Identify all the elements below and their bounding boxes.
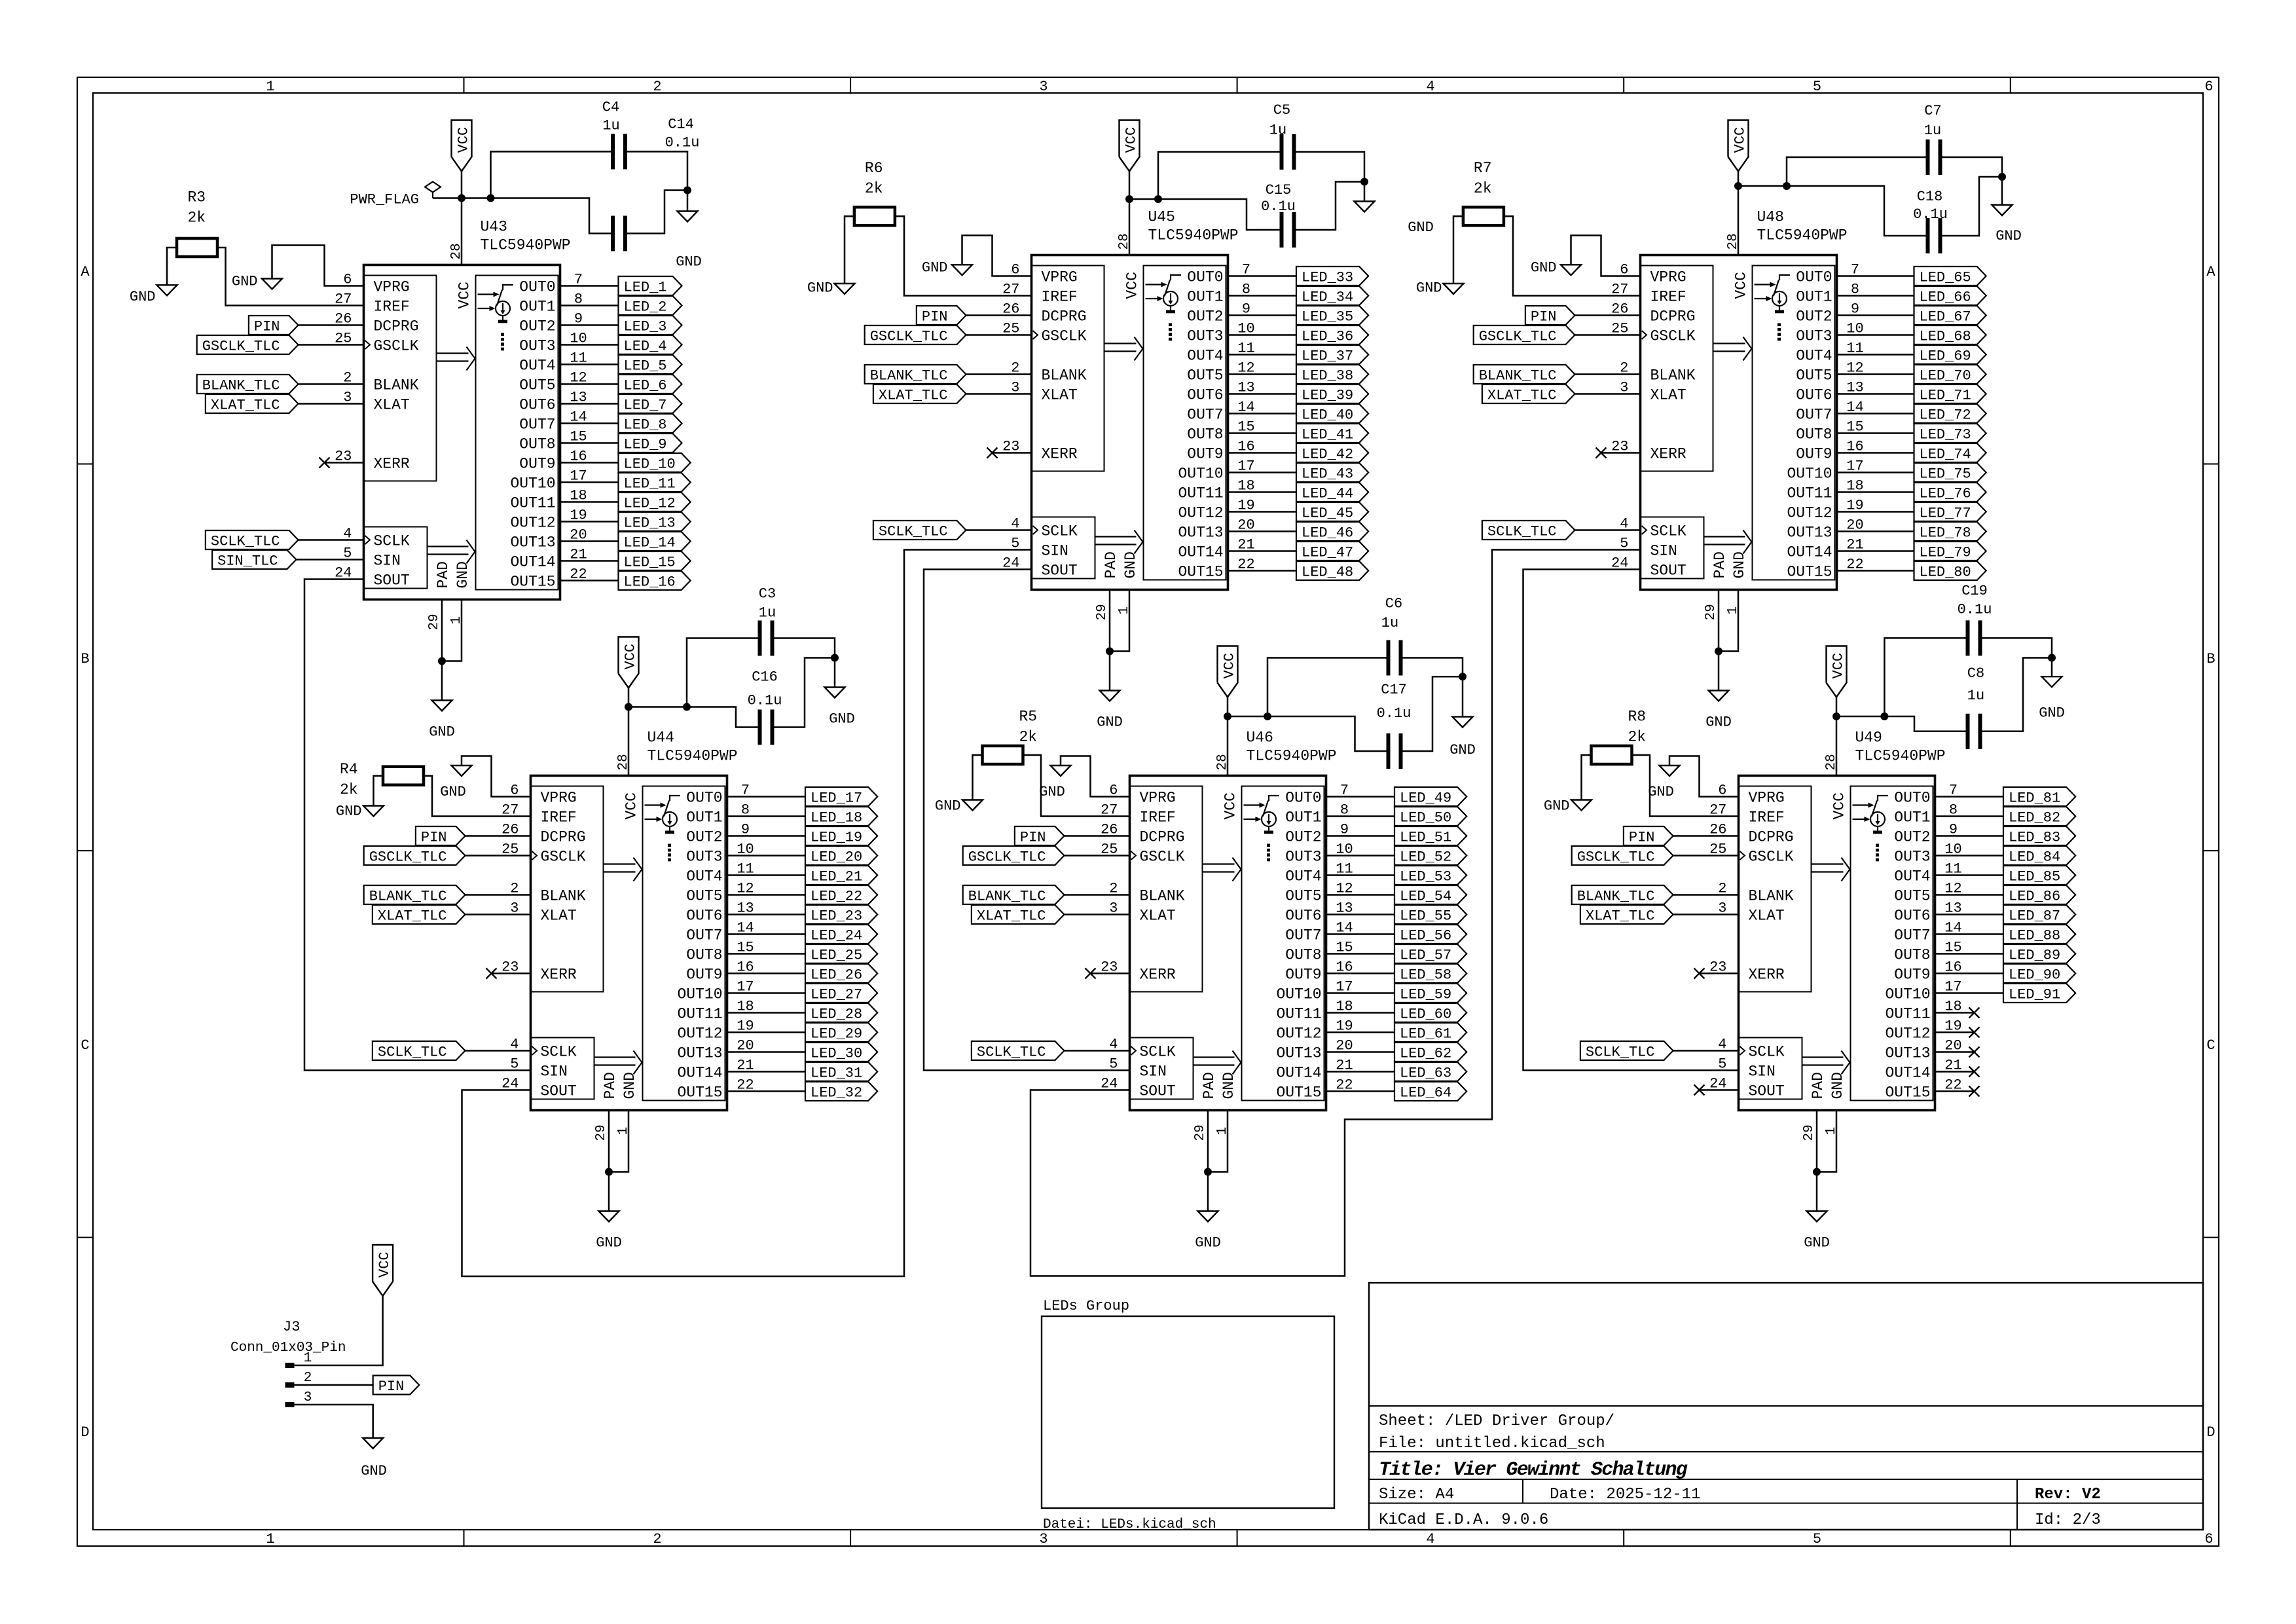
IC U48 inner box serial pins: [1641, 517, 1704, 579]
global label XLAT_TLC at U46.XLAT: [972, 905, 1065, 924]
svg-text:C15: C15: [1266, 182, 1292, 198]
connector J3 pin 3 stub: [285, 1402, 295, 1407]
svg-text:D: D: [81, 1424, 89, 1441]
wire SCLK_TLC to U46.SCLK: [1065, 1050, 1130, 1052]
svg-text:GND: GND: [922, 259, 948, 276]
wire U45.VPRG to GND: [962, 236, 1032, 276]
svg-text:C16: C16: [752, 669, 778, 686]
wire C8 to GND junction U49: [1982, 658, 2052, 731]
svg-text:VCC: VCC: [1831, 653, 1847, 679]
svg-text:GND: GND: [621, 1072, 638, 1099]
svg-text:DCPRG: DCPRG: [1749, 829, 1794, 846]
global label GSCLK_TLC at U45.GSCLK: [865, 325, 966, 344]
junction VCC pin U46: [1224, 712, 1231, 720]
svg-text:0.1u: 0.1u: [748, 693, 782, 709]
wire U45.OUT10 to LED_43: [1228, 471, 1297, 473]
IC U49 bus arrow lower: [1802, 1056, 1844, 1058]
wire J3 pin2 to PIN label: [295, 1384, 373, 1386]
wire U49.OUT5 to LED_86: [1935, 894, 2004, 896]
svg-text:SCLK: SCLK: [1749, 1044, 1785, 1061]
svg-text:R4: R4: [340, 761, 358, 778]
IC U44 clock mark SCLK: [532, 1046, 538, 1055]
wire U48.OUT13 to LED_78: [1837, 530, 1914, 532]
svg-text:Date: 2025-12-11: Date: 2025-12-11: [1550, 1486, 1700, 1504]
svg-text:2: 2: [653, 1531, 661, 1547]
svg-text:LED_27: LED_27: [811, 987, 862, 1003]
wire VCC to U49 pin 28: [1836, 716, 1838, 776]
wire U45.OUT1 to LED_34: [1228, 295, 1297, 297]
wire U43.OUT10 to LED_11: [560, 481, 619, 483]
IC U46 inner box serial pins: [1130, 1038, 1194, 1099]
junction VCC pin U49: [1832, 712, 1840, 720]
global label LED_44: [1296, 483, 1368, 502]
capacitor C7 (1u): [1926, 139, 1930, 175]
wire U48.OUT7 to LED_72: [1837, 413, 1914, 415]
wire PIN to U45.DCPRG: [966, 314, 1032, 316]
wire VCC rail U46: [1227, 697, 1229, 717]
ground symbol below U43: [432, 701, 452, 711]
svg-text:VCC: VCC: [1831, 792, 1848, 819]
svg-text:LED_7: LED_7: [624, 397, 667, 414]
wire U43.VPRG to GND: [272, 246, 364, 286]
svg-text:OUT13: OUT13: [1276, 1045, 1321, 1062]
wire GSCLK_TLC to U44.GSCLK: [465, 855, 531, 857]
global label BLANK_TLC at U45.BLANK: [865, 365, 966, 384]
wire U44.OUT11 to LED_28: [727, 1012, 806, 1014]
svg-text:29: 29: [594, 1124, 609, 1141]
no-connect X at U49.OUT14: [1969, 1067, 1980, 1077]
wire U48 PAD pin 29 to GND: [1718, 590, 1720, 652]
IC U46 bus arrow upper: [1203, 863, 1235, 864]
wire caps junction to GND U44: [834, 658, 836, 688]
wire U46 GND pin 1 to junction: [1208, 1111, 1228, 1172]
wire U44.OUT12 to LED_29: [727, 1031, 806, 1033]
IC U46 inner box control pins: [1130, 786, 1203, 992]
svg-text:GND: GND: [829, 711, 855, 728]
global label LED_34: [1296, 286, 1368, 305]
svg-text:LED_24: LED_24: [811, 928, 862, 944]
svg-text:6: 6: [2204, 79, 2213, 95]
wire U44.OUT5 to LED_22: [727, 894, 806, 896]
wire U49.OUT8 to LED_89: [1935, 953, 2004, 955]
svg-text:SCLK: SCLK: [541, 1044, 577, 1061]
ground symbol below U49: [1807, 1211, 1827, 1222]
svg-text:2k: 2k: [865, 180, 883, 197]
wire U48.SOUT to U49.SIN: [1523, 570, 1739, 1071]
IC U45 bus arrow lower: [1095, 536, 1137, 537]
wire BLANK_TLC to U48.BLANK: [1575, 373, 1641, 375]
svg-text:OUT14: OUT14: [677, 1065, 722, 1082]
svg-text:OUT7: OUT7: [686, 927, 722, 944]
svg-text:VCC: VCC: [1222, 653, 1238, 679]
svg-text:BLANK: BLANK: [1042, 367, 1087, 384]
svg-text:Id: 2/3: Id: 2/3: [2035, 1511, 2101, 1529]
junction cap branch U46: [1264, 712, 1271, 720]
wire XLAT_TLC to U44.XLAT: [465, 913, 531, 915]
svg-text:GND: GND: [1195, 1235, 1221, 1251]
svg-text:OUT14: OUT14: [510, 554, 555, 571]
svg-text:BLANK_TLC: BLANK_TLC: [369, 889, 447, 905]
svg-text:1: 1: [304, 1351, 312, 1366]
svg-text:OUT10: OUT10: [510, 475, 555, 492]
global label LED_87: [2003, 905, 2075, 924]
wire PIN to U48.DCPRG: [1575, 314, 1641, 316]
junction cap branch U48: [1783, 182, 1791, 190]
wire U45.OUT15 to LED_48: [1228, 570, 1297, 572]
global label LED_23: [805, 905, 877, 924]
wire R3 left to GND: [167, 248, 177, 285]
svg-text:C8: C8: [1967, 665, 1984, 682]
svg-text:OUT0: OUT0: [686, 790, 722, 807]
wire U45.OUT2 to LED_35: [1228, 314, 1297, 316]
ground symbol below U46: [1198, 1211, 1218, 1222]
svg-text:LED_66: LED_66: [1920, 289, 1971, 306]
global label PIN at J3: [373, 1376, 420, 1395]
wire XLAT_TLC to U45.XLAT: [966, 393, 1032, 395]
svg-text:U48: U48: [1757, 209, 1784, 226]
global label LED_29: [805, 1023, 877, 1042]
svg-text:GND: GND: [1705, 714, 1732, 731]
wire U49.OUT1 to LED_82: [1935, 815, 2004, 817]
global label LED_81: [2003, 787, 2075, 806]
svg-text:TLC5940PWP: TLC5940PWP: [1855, 748, 1946, 765]
IC U46 inner box outputs: [1242, 786, 1324, 1101]
svg-text:VPRG: VPRG: [541, 790, 577, 807]
svg-text:SCLK: SCLK: [1042, 523, 1078, 540]
global label LED_25: [805, 944, 877, 963]
svg-text:OUT2: OUT2: [1796, 308, 1832, 325]
wire GSCLK_TLC to U49.GSCLK: [1673, 855, 1739, 857]
wire U44 PAD pin 29 to GND: [608, 1111, 610, 1172]
svg-text:Sheet: /LED Driver Group/: Sheet: /LED Driver Group/: [1379, 1412, 1614, 1430]
svg-text:2k: 2k: [188, 210, 206, 227]
svg-text:XERR: XERR: [1749, 967, 1785, 984]
svg-text:LED_45: LED_45: [1302, 506, 1353, 522]
svg-text:OUT1: OUT1: [1894, 809, 1930, 826]
svg-text:IREF: IREF: [541, 809, 577, 826]
svg-text:XLAT_TLC: XLAT_TLC: [977, 908, 1046, 925]
IC U44 clock mark GSCLK: [532, 851, 538, 860]
svg-text:OUT8: OUT8: [1894, 947, 1930, 964]
svg-text:GSCLK_TLC: GSCLK_TLC: [968, 849, 1046, 866]
svg-text:OUT13: OUT13: [1787, 525, 1832, 542]
svg-text:OUT15: OUT15: [677, 1084, 722, 1101]
svg-text:OUT3: OUT3: [519, 338, 555, 355]
ground symbol at R8: [1571, 800, 1592, 811]
svg-text:GND: GND: [2039, 705, 2065, 722]
global label LED_32: [805, 1082, 877, 1101]
wire to C4 U43: [491, 152, 611, 198]
svg-text:XLAT_TLC: XLAT_TLC: [378, 908, 447, 925]
svg-text:B: B: [81, 651, 89, 667]
wire U46.OUT15 to LED_64: [1326, 1090, 1395, 1092]
svg-text:LED_23: LED_23: [811, 908, 862, 925]
ground symbol caps U43: [678, 212, 698, 222]
global label XLAT_TLC at U43.XLAT: [206, 394, 299, 413]
IC U48 clock mark GSCLK: [1642, 331, 1647, 339]
wire U43.OUT3 to LED_4: [560, 344, 619, 346]
svg-text:LED_32: LED_32: [811, 1085, 862, 1101]
svg-text:OUT1: OUT1: [686, 809, 722, 826]
svg-text:29: 29: [427, 614, 442, 630]
svg-text:GSCLK: GSCLK: [1650, 328, 1696, 345]
border row tick right B|C: [2203, 850, 2219, 851]
svg-text:OUT1: OUT1: [519, 299, 555, 316]
svg-text:GND: GND: [429, 724, 455, 741]
global label SCLK_TLC at U48.SCLK: [1482, 521, 1575, 540]
svg-text:OUT7: OUT7: [519, 416, 555, 434]
svg-text:LED_84: LED_84: [2009, 849, 2060, 866]
ground symbol at R7: [1444, 284, 1464, 294]
svg-text:2k: 2k: [340, 781, 358, 798]
wire U43.OUT13 to LED_14: [560, 540, 619, 542]
global label LED_41: [1296, 424, 1368, 443]
svg-text:OUT6: OUT6: [519, 397, 555, 414]
svg-text:C3: C3: [759, 586, 776, 602]
svg-text:VCC: VCC: [623, 644, 639, 670]
svg-text:LED_12: LED_12: [624, 496, 676, 512]
svg-text:C18: C18: [1917, 189, 1943, 205]
global label GSCLK_TLC at U44.GSCLK: [364, 846, 465, 865]
title block row divider size: [1369, 1479, 2203, 1480]
svg-text:VCC: VCC: [1222, 792, 1239, 819]
power symbol VCC at U43: [452, 120, 472, 172]
svg-text:SCLK: SCLK: [374, 533, 410, 550]
svg-text:VCC: VCC: [1732, 127, 1749, 153]
border column tick bottom 1: [464, 1530, 465, 1546]
svg-text:A: A: [2206, 264, 2215, 280]
svg-text:LED_35: LED_35: [1302, 309, 1353, 325]
wire U44.VPRG to GND: [462, 756, 531, 797]
IC U48 body outline: [1641, 255, 1837, 590]
junction VCC pin U44: [625, 703, 632, 711]
wire XLAT_TLC to U46.XLAT: [1065, 913, 1130, 915]
ground symbol at U43.VPRG: [262, 279, 282, 289]
border column tick bottom 5: [2010, 1530, 2011, 1546]
IC U43 clock mark GSCLK: [365, 341, 371, 349]
wire SCLK_TLC to U44.SCLK: [465, 1050, 531, 1052]
wire junction to ground U48: [1718, 652, 1720, 691]
svg-text:PAD: PAD: [1102, 551, 1120, 578]
svg-text:LED_5: LED_5: [624, 358, 667, 375]
svg-text:OUT5: OUT5: [519, 377, 555, 394]
svg-text:GND: GND: [1122, 551, 1139, 578]
wire U49 GND pin 1 to junction: [1817, 1111, 1836, 1172]
svg-text:GND: GND: [1731, 551, 1748, 578]
global label LED_80: [1914, 561, 1986, 580]
svg-text:XERR: XERR: [541, 967, 577, 984]
no-connect X at U48.XERR: [1596, 448, 1607, 458]
svg-text:1u: 1u: [1269, 122, 1286, 139]
wire U49.OUT9 to LED_90: [1935, 972, 2004, 974]
wire U45.XERR stub: [993, 452, 1032, 454]
svg-text:IREF: IREF: [1749, 809, 1785, 826]
wire J3 pin3 to GND: [295, 1405, 373, 1438]
wire R6 left to GND: [845, 216, 854, 284]
junction GND caps U44: [831, 654, 839, 662]
junction U43 pins 29/1: [438, 657, 446, 665]
svg-text:OUT15: OUT15: [1178, 564, 1223, 581]
svg-text:OUT4: OUT4: [1187, 348, 1223, 365]
svg-text:OUT9: OUT9: [519, 456, 555, 473]
svg-text:Datei: LEDs.kicad_sch: Datei: LEDs.kicad_sch: [1043, 1517, 1216, 1532]
svg-text:OUT2: OUT2: [686, 829, 722, 846]
IC U48 output stage icon: [1755, 275, 1791, 341]
wire U46.OUT2 to LED_51: [1326, 835, 1395, 837]
global label LED_75: [1914, 463, 1986, 482]
global label LED_30: [805, 1043, 877, 1061]
svg-text:OUT4: OUT4: [519, 358, 555, 375]
global label PIN at U48.DCPRG: [1525, 306, 1575, 325]
svg-text:OUT2: OUT2: [1894, 829, 1930, 846]
border column tick top 5: [2010, 77, 2011, 93]
ground symbol below U48: [1709, 691, 1729, 701]
svg-text:OUT10: OUT10: [1276, 986, 1321, 1003]
global label LED_14: [619, 532, 691, 551]
junction VCC pin U45: [1125, 195, 1133, 203]
global label LED_1: [619, 276, 682, 295]
wire R7 right to U48.IREF: [1504, 216, 1641, 295]
global label LED_43: [1296, 463, 1368, 482]
global label PIN at U46.DCPRG: [1015, 826, 1065, 845]
wire U44.OUT3 to LED_20: [727, 855, 806, 857]
svg-text:LED_78: LED_78: [1920, 525, 1971, 542]
svg-text:OUT15: OUT15: [510, 574, 555, 591]
svg-text:PIN: PIN: [922, 309, 948, 325]
svg-text:Size: A4: Size: A4: [1379, 1486, 1454, 1504]
IC U44 inner box serial pins: [531, 1038, 594, 1099]
wire SCLK_TLC to U49.SCLK: [1673, 1050, 1739, 1052]
svg-text:OUT14: OUT14: [1178, 544, 1223, 561]
global label LED_3: [619, 316, 682, 335]
wire U46.OUT1 to LED_50: [1326, 815, 1395, 817]
title block column divider rev/id: [2016, 1479, 2018, 1530]
svg-text:LED_14: LED_14: [624, 535, 676, 551]
svg-text:LED_70: LED_70: [1920, 368, 1971, 384]
svg-text:LED_57: LED_57: [1400, 948, 1451, 964]
svg-text:SOUT: SOUT: [541, 1083, 577, 1100]
svg-text:LED_67: LED_67: [1920, 309, 1971, 325]
svg-text:C: C: [81, 1037, 89, 1054]
global label LED_5: [619, 355, 682, 374]
global label LED_55: [1394, 905, 1467, 924]
svg-text:1: 1: [266, 1531, 274, 1547]
svg-text:LED_55: LED_55: [1400, 908, 1451, 925]
svg-text:OUT0: OUT0: [1894, 790, 1930, 807]
wire caps junction to GND U45: [1364, 182, 1366, 202]
svg-text:SCLK_TLC: SCLK_TLC: [1487, 524, 1557, 540]
svg-text:LED_8: LED_8: [624, 417, 667, 434]
wire U44.OUT9 to LED_26: [727, 972, 806, 974]
svg-text:VCC: VCC: [456, 282, 473, 308]
wire U46.OUT8 to LED_57: [1326, 953, 1395, 955]
svg-text:LED_30: LED_30: [811, 1046, 862, 1062]
IC U43 bus arrow upper: [437, 352, 469, 354]
global label LED_17: [805, 787, 877, 806]
wire U48.OUT14 to LED_79: [1837, 550, 1914, 552]
svg-text:LED_58: LED_58: [1400, 967, 1451, 984]
wire VCC horizontal U45: [1129, 199, 1280, 230]
svg-text:29: 29: [1704, 604, 1719, 620]
global label GSCLK_TLC at U43.GSCLK: [197, 335, 299, 354]
global label LED_22: [805, 885, 877, 904]
svg-text:LED_29: LED_29: [811, 1026, 862, 1043]
wire U46.OUT6 to LED_55: [1326, 913, 1395, 915]
global label SCLK_TLC at U46.SCLK: [972, 1041, 1065, 1060]
svg-text:OUT4: OUT4: [1285, 868, 1321, 885]
wire U43.SOUT to U44.SIN: [304, 580, 531, 1071]
svg-text:LED_60: LED_60: [1400, 1006, 1451, 1023]
svg-text:LED_33: LED_33: [1302, 270, 1353, 286]
svg-text:PIN: PIN: [1629, 830, 1655, 846]
svg-text:OUT12: OUT12: [1885, 1025, 1930, 1043]
svg-text:U43: U43: [481, 219, 507, 236]
svg-text:OUT1: OUT1: [1796, 289, 1832, 306]
global label LED_57: [1394, 944, 1467, 963]
wire U43.OUT12 to LED_13: [560, 521, 619, 523]
no-connect X at U45.XERR: [987, 448, 998, 458]
wire C6 to GND junction U46: [1402, 658, 1463, 677]
svg-text:2k: 2k: [1474, 180, 1492, 197]
IC U48 inner box control pins: [1641, 266, 1713, 471]
svg-text:LED_61: LED_61: [1400, 1026, 1451, 1043]
wire U44.XERR stub: [492, 972, 531, 974]
svg-text:VCC: VCC: [1733, 272, 1750, 299]
no-connect X at U49.OUT13: [1969, 1047, 1980, 1058]
svg-text:GSCLK: GSCLK: [1749, 849, 1794, 866]
svg-text:GND: GND: [1531, 259, 1557, 276]
global label LED_40: [1296, 404, 1368, 423]
svg-text:LED_74: LED_74: [1920, 447, 1971, 463]
border row tick left A|B: [77, 464, 93, 465]
svg-text:OUT13: OUT13: [1885, 1045, 1930, 1062]
svg-text:IREF: IREF: [1140, 809, 1176, 826]
svg-text:GND: GND: [454, 561, 471, 588]
svg-text:OUT7: OUT7: [1187, 407, 1223, 424]
IC U44 bus arrow upper: [604, 863, 636, 864]
svg-text:LED_13: LED_13: [624, 515, 676, 532]
svg-text:GND: GND: [1220, 1072, 1237, 1099]
global label SCLK_TLC at U49.SCLK: [1580, 1041, 1673, 1060]
svg-text:LED_50: LED_50: [1400, 810, 1451, 826]
svg-text:2k: 2k: [1628, 729, 1647, 746]
wire U46.OUT10 to LED_59: [1326, 992, 1395, 994]
svg-text:LED_3: LED_3: [624, 319, 667, 335]
resistor R4 body: [383, 767, 424, 785]
no-connect X at U49.SOUT: [1694, 1085, 1705, 1096]
global label XLAT_TLC at U49.XLAT: [1580, 905, 1673, 924]
svg-text:LED_82: LED_82: [2009, 810, 2060, 826]
svg-text:PIN: PIN: [421, 830, 447, 846]
global label LED_37: [1296, 345, 1368, 364]
wire U46.OUT0 to LED_49: [1326, 796, 1395, 798]
svg-text:LED_90: LED_90: [2009, 967, 2060, 984]
svg-text:BLANK_TLC: BLANK_TLC: [968, 889, 1046, 905]
IC U46 output stage icon: [1244, 796, 1280, 861]
wire VCC rail U48: [1738, 172, 1740, 187]
global label LED_69: [1914, 345, 1986, 364]
svg-text:XLAT_TLC: XLAT_TLC: [211, 397, 280, 414]
wire U46.OUT7 to LED_56: [1326, 933, 1395, 935]
IC U45 output stage icon: [1146, 275, 1182, 341]
svg-text:DCPRG: DCPRG: [541, 829, 586, 846]
power symbol VCC at U44: [619, 637, 639, 688]
svg-text:OUT13: OUT13: [510, 534, 555, 551]
svg-text:LED_22: LED_22: [811, 889, 862, 905]
svg-text:BLANK_TLC: BLANK_TLC: [1577, 889, 1655, 905]
svg-text:PAD: PAD: [1711, 551, 1728, 578]
svg-text:4: 4: [1426, 79, 1434, 95]
